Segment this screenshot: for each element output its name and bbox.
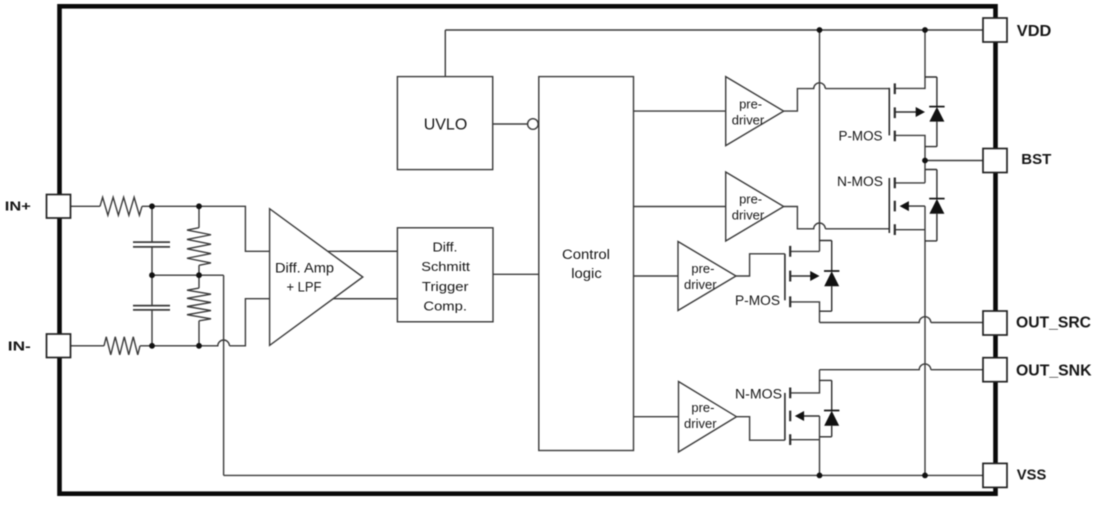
junction node on IN+ wire at C1: [149, 203, 155, 209]
wire UVLO to control logic: [493, 123, 528, 125]
svg-text:driver: driver: [684, 278, 717, 292]
wire diff amp outputs to schmitt trigger (drawn under triangle): [340, 251, 397, 298]
svg-text:N-MOS: N-MOS: [837, 174, 883, 189]
transistor Q4 N-MOS (OUT_SNK): [785, 388, 820, 446]
pre-driver U6: [679, 382, 737, 453]
pin IN-: [8, 334, 71, 358]
inverter bubble on UVLO output: [528, 119, 539, 130]
block UVLO: [397, 77, 492, 170]
junction node VSS rail / Q4 source: [817, 473, 823, 479]
body diode D2: [925, 170, 945, 241]
svg-text:UVLO: UVLO: [424, 116, 468, 133]
svg-text:IN-: IN-: [8, 338, 31, 353]
svg-text:P-MOS: P-MOS: [735, 293, 780, 308]
wire VDD riser to Q3 drain: [819, 30, 821, 251]
resistor R1 (IN+ series): [100, 197, 142, 215]
resistor R3 (upper divider, vertical): [187, 206, 211, 275]
svg-text:OUT_SRC: OUT_SRC: [1016, 315, 1091, 332]
wire Q2 source down to VSS rail: [895, 206, 925, 475]
svg-text:driver: driver: [684, 417, 717, 431]
resistor R4 (lower divider, vertical): [187, 275, 211, 346]
svg-text:Trigger: Trigger: [422, 280, 469, 294]
wire control logic to pre-driver U3: [634, 110, 726, 112]
svg-text:VDD: VDD: [1017, 23, 1052, 40]
wire control logic to pre-driver U5: [634, 275, 679, 277]
capacitor C1 (upper filter cap): [151, 206, 153, 275]
svg-text:Diff. Amp: Diff. Amp: [275, 260, 334, 275]
wire UVLO to VDD rail: [444, 30, 446, 77]
transistor Q1 P-MOS (BST high side): [889, 83, 917, 141]
wire BST node to BST pin: [925, 160, 983, 162]
body diode D4: [820, 380, 840, 436]
junction node on IN- wire at C2: [149, 343, 155, 349]
pin VDD: [983, 18, 1051, 42]
svg-text:Control: Control: [562, 247, 610, 262]
junction node on IN+ wire at R3: [196, 203, 202, 209]
body diode D3: [820, 241, 840, 312]
wire IN+ input to diff amp upper input: [71, 206, 398, 251]
svg-text:P-MOS: P-MOS: [839, 128, 883, 143]
svg-text:pre-: pre-: [739, 97, 762, 111]
wire pre-driver U4 to N-MOS Q2 gate (jump over VDD riser): [784, 207, 890, 229]
wire Q1 source to BST node: [895, 135, 925, 160]
pre-driver U3: [726, 77, 784, 146]
wire mid-tap node to VSS rail: [152, 275, 224, 475]
svg-text:driver: driver: [732, 209, 765, 223]
wire VDD rail: [445, 29, 983, 31]
svg-text:BST: BST: [1021, 152, 1051, 168]
wire Q2 drain from BST node: [895, 161, 925, 183]
wire Q3 drain stub: [790, 250, 819, 252]
svg-text:Diff.: Diff.: [433, 240, 458, 254]
wire Q4 source down to VSS rail: [790, 416, 819, 475]
pin OUT_SNK: [983, 358, 1092, 382]
wire Q4 drain to OUT_SNK pin (jump over Q2 source line): [790, 364, 983, 393]
wire control logic to pre-driver U6: [634, 416, 679, 418]
capacitor C2 (lower filter cap): [151, 275, 153, 346]
wire schmitt trigger to control logic: [493, 273, 539, 275]
junction node BST: [922, 158, 928, 164]
op-amp U1 Diff. Amp + LPF: [270, 209, 363, 346]
transistor Q3 P-MOS (OUT_SRC): [785, 246, 812, 307]
junction node mid-tap at R3/R4: [196, 272, 202, 278]
junction node VDD rail / Q1 drain: [922, 27, 928, 33]
wire Q1 drain to VDD rail: [895, 30, 925, 88]
pin IN+: [5, 195, 71, 219]
svg-text:pre-: pre-: [739, 193, 762, 207]
wire Q3 source to OUT_SRC pin (jump over Q2 source line): [790, 302, 983, 323]
block Control logic: [539, 77, 634, 451]
wire pre-driver U5 to P-MOS Q3 gate: [736, 254, 785, 276]
junction node VDD rail / Q3 riser: [817, 27, 823, 33]
pin OUT_SRC: [983, 311, 1091, 335]
svg-text:OUT_SNK: OUT_SNK: [1016, 363, 1092, 380]
wire pre-driver U3 to P-MOS Q1 gate (jump over VDD riser): [784, 83, 890, 111]
pin BST: [983, 149, 1051, 173]
svg-text:pre-: pre-: [691, 401, 714, 415]
svg-text:Schmitt: Schmitt: [421, 260, 470, 274]
svg-text:driver: driver: [732, 113, 765, 127]
svg-text:pre-: pre-: [691, 262, 714, 276]
svg-text:logic: logic: [571, 266, 602, 281]
svg-text:VSS: VSS: [1017, 467, 1047, 483]
pin VSS: [983, 463, 1046, 487]
resistor R2 (IN- series): [104, 337, 140, 355]
svg-text:IN+: IN+: [5, 198, 31, 213]
svg-text:N-MOS: N-MOS: [735, 386, 782, 401]
junction node VSS rail / Q2 source: [922, 473, 928, 479]
wire control logic to pre-driver U4: [634, 206, 726, 208]
wire VSS rail: [224, 474, 983, 476]
svg-text:+ LPF: + LPF: [287, 279, 322, 294]
comparator U2 Diff. Schmitt Trigger Comp.: [397, 228, 493, 322]
wire IN- input to diff amp lower input (with jump over mid-tap): [71, 299, 398, 346]
transistor Q2 N-MOS (BST low side): [889, 178, 925, 236]
junction node mid-tap at C1/C2: [149, 272, 155, 278]
pre-driver U4: [726, 172, 784, 241]
wire pre-driver U6 to N-MOS Q4 gate: [737, 417, 785, 441]
svg-text:Comp.: Comp.: [423, 300, 467, 314]
body diode D1: [925, 77, 945, 147]
junction node on IN- wire at R4: [196, 343, 202, 349]
pre-driver U5: [678, 242, 736, 311]
